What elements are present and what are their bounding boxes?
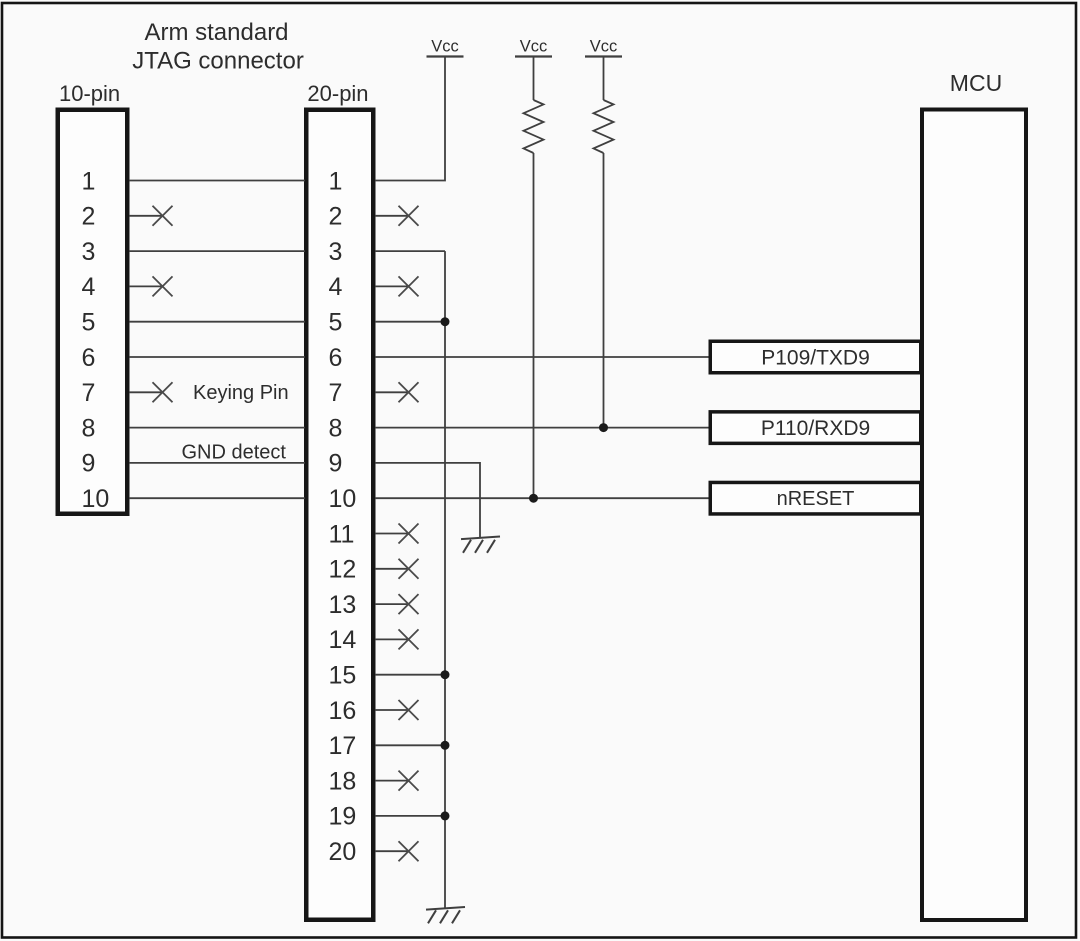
- svg-text:19: 19: [329, 803, 357, 831]
- no-connect X J1.7: [153, 382, 173, 402]
- no-connect X J2.11: [399, 524, 419, 544]
- no-connect X J2.14: [399, 629, 419, 649]
- svg-text:JTAG connector: JTAG connector: [132, 48, 304, 75]
- no-connect X J2.18: [399, 771, 419, 791]
- stub J1.4: [129, 285, 164, 287]
- wire J1.1 to J2.1: [129, 180, 305, 182]
- svg-text:Keying Pin: Keying Pin: [193, 382, 289, 404]
- svg-text:8: 8: [329, 414, 343, 442]
- svg-text:2: 2: [329, 203, 343, 231]
- connector J2 (20-pin) box: [306, 110, 373, 920]
- no-connect X J2.2: [399, 206, 419, 226]
- resistor R1 (pull-up to nRESET): [524, 100, 544, 153]
- wire J2.17 to rail: [375, 744, 445, 746]
- no-connect X J1.2: [153, 206, 173, 226]
- junction dot J2.5 / GND rail: [441, 317, 450, 326]
- stub J2.13: [375, 603, 410, 605]
- svg-text:4: 4: [329, 273, 343, 301]
- power symbol Vcc (pull-up R1): [515, 38, 552, 101]
- no-connect X J2.12: [399, 559, 419, 579]
- svg-text:3: 3: [329, 238, 343, 266]
- wire J1.5 to J2.5: [129, 321, 305, 323]
- svg-text:1: 1: [329, 167, 343, 195]
- junction dot J2.19 / GND rail: [441, 811, 450, 820]
- title: Arm standard JTAG connector: [132, 19, 304, 75]
- wire R1 to nRESET net: [533, 153, 535, 498]
- svg-text:Arm standard: Arm standard: [144, 19, 288, 46]
- svg-text:10: 10: [82, 485, 110, 513]
- svg-text:10-pin: 10-pin: [59, 81, 120, 106]
- wire J1.3 to J2.3: [129, 250, 305, 252]
- svg-text:GND detect: GND detect: [182, 442, 287, 464]
- stub J2.12: [375, 568, 410, 570]
- svg-text:4: 4: [82, 273, 96, 301]
- svg-text:7: 7: [82, 379, 96, 407]
- junction dot J2.15 / GND rail: [441, 670, 450, 679]
- svg-text:15: 15: [329, 662, 357, 690]
- svg-text:18: 18: [329, 767, 357, 795]
- connector J1 (10-pin) box: [58, 110, 128, 514]
- stub J2.2: [375, 215, 410, 217]
- svg-text:Vcc: Vcc: [431, 38, 459, 56]
- svg-text:14: 14: [329, 626, 357, 654]
- no-connect X J2.20: [399, 841, 419, 861]
- svg-text:11: 11: [329, 520, 355, 548]
- svg-text:nRESET: nRESET: [777, 488, 855, 510]
- wire J1.6 to J2.6: [129, 356, 305, 358]
- stub J1.2: [129, 215, 164, 217]
- svg-text:2: 2: [82, 203, 96, 231]
- svg-text:20-pin: 20-pin: [307, 81, 368, 106]
- no-connect X J1.4: [153, 276, 173, 296]
- wire J2.5 to rail: [375, 321, 445, 323]
- svg-text:P110/RXD9: P110/RXD9: [761, 417, 870, 440]
- svg-text:Vcc: Vcc: [520, 38, 548, 56]
- svg-text:10: 10: [329, 485, 357, 513]
- wire J2.1 to Vcc: [375, 57, 445, 181]
- power symbol Vcc (net VTref): [427, 38, 464, 57]
- MCU port box nRESET: [710, 482, 921, 514]
- stub J1.7: [129, 391, 164, 393]
- wire J2.6 to P109/TXD9: [375, 356, 710, 358]
- no-connect X J2.4: [399, 276, 419, 296]
- wire J2.3 to GND rail: [375, 250, 445, 252]
- svg-text:9: 9: [82, 450, 96, 478]
- J1 pin numbers 1-10: [82, 167, 110, 513]
- wire J2.8 to P110/RXD9: [375, 427, 710, 429]
- wire J1.8 to J2.8: [129, 427, 305, 429]
- no-connect X J2.7: [399, 382, 419, 402]
- stub J2.20: [375, 850, 410, 852]
- stub J2.7: [375, 391, 410, 393]
- power symbol Vcc (pull-up R2): [585, 38, 622, 101]
- svg-text:P109/TXD9: P109/TXD9: [761, 346, 870, 369]
- stub J2.14: [375, 638, 410, 640]
- svg-text:12: 12: [329, 556, 357, 584]
- svg-text:9: 9: [329, 450, 343, 478]
- stub J2.4: [375, 285, 410, 287]
- stub J2.11: [375, 533, 410, 535]
- wire J2.19 to rail: [375, 815, 445, 817]
- wire R2 to RXD9 net: [603, 153, 605, 428]
- GND rail vertical: [444, 251, 446, 908]
- ground symbol (GND detect branch): [461, 537, 500, 553]
- svg-text:3: 3: [82, 238, 96, 266]
- no-connect X J2.16: [399, 700, 419, 720]
- svg-text:5: 5: [82, 309, 96, 337]
- svg-text:1: 1: [82, 167, 96, 195]
- ground symbol (GND rail bottom): [426, 907, 465, 923]
- wire J1.9 to J2.9: [129, 462, 305, 464]
- svg-text:5: 5: [329, 309, 343, 337]
- MCU port box P109/TXD9: [710, 341, 921, 373]
- wire J1.10 to J2.10: [129, 497, 305, 499]
- svg-text:MCU: MCU: [950, 70, 1002, 96]
- junction dot R2 / RXD9 net: [599, 423, 608, 432]
- junction dot J2.17 / GND rail: [441, 741, 450, 750]
- stub J2.16: [375, 709, 410, 711]
- no-connect X J2.13: [399, 594, 419, 614]
- svg-text:Vcc: Vcc: [590, 38, 618, 56]
- junction dot R1 / nRESET net: [529, 494, 538, 503]
- svg-text:6: 6: [82, 344, 96, 372]
- J2 pin numbers 1-20: [329, 167, 357, 866]
- svg-text:16: 16: [329, 697, 357, 725]
- svg-text:17: 17: [329, 732, 357, 760]
- svg-text:20: 20: [329, 838, 357, 866]
- wire J2.9 to ground: [375, 463, 480, 538]
- wire J2.15 to rail: [375, 674, 445, 676]
- svg-text:13: 13: [329, 591, 357, 619]
- wire J2.10 to nRESET: [375, 497, 710, 499]
- resistor R2 (pull-up to P110/RXD9): [594, 100, 614, 153]
- stub J2.18: [375, 780, 410, 782]
- MCU box U1: [922, 110, 1026, 921]
- svg-text:7: 7: [329, 379, 343, 407]
- MCU port box P110/RXD9: [710, 412, 921, 444]
- svg-text:8: 8: [82, 414, 96, 442]
- svg-text:6: 6: [329, 344, 343, 372]
